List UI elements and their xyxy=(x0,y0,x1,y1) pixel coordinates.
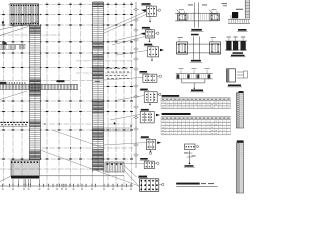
right detail B (edge beam) xyxy=(244,0,246,19)
table T2 title xyxy=(162,113,191,115)
mid reference line with node circles xyxy=(135,2,137,168)
note line xyxy=(176,183,200,185)
leader to D4 xyxy=(104,78,143,81)
right detail C (beam-column 2) xyxy=(193,36,195,59)
leader diagonals top-left xyxy=(0,22,39,30)
detail D8 xyxy=(140,158,148,160)
leader to D7 xyxy=(104,143,146,146)
leader to D5 xyxy=(118,96,144,101)
leader to D8 xyxy=(108,163,144,165)
detail D7 xyxy=(141,136,149,138)
table T1 xyxy=(161,97,231,99)
leader to D2 xyxy=(110,34,145,43)
caption A xyxy=(191,29,202,31)
detail D3 xyxy=(144,44,152,46)
detail D4 xyxy=(140,71,148,73)
right detail E (long beam elevation) xyxy=(176,73,213,75)
right detail F (column section) xyxy=(227,69,236,82)
left edge annotation clusters xyxy=(2,21,4,23)
right narrow table RT1 xyxy=(239,91,244,93)
plan column dots xyxy=(2,14,5,15)
table T1 title xyxy=(162,95,180,97)
table T2 xyxy=(161,116,231,118)
bottom dimension line xyxy=(0,185,133,187)
detail D9 (large dark) xyxy=(139,176,148,178)
bottom-middle hatched patch xyxy=(105,162,124,172)
right detail A (beam-column) xyxy=(194,2,196,27)
right narrow table RT2 xyxy=(237,140,244,142)
text annotations near band2 xyxy=(106,67,108,70)
circle under D7 xyxy=(149,152,151,154)
detail G (vertical rebar) xyxy=(185,144,196,150)
right detail D (triple block) xyxy=(225,40,247,42)
leader to D3 xyxy=(116,51,147,56)
stair band B1 (vertical, left) xyxy=(28,25,30,160)
leader diagonals bottom xyxy=(0,176,11,182)
detail D1 xyxy=(142,3,151,5)
detail D6 xyxy=(141,109,149,111)
bottom-left hatched block + dark band xyxy=(11,160,40,176)
plan column grid lines xyxy=(8,3,133,5)
top-left hatched slab block xyxy=(10,4,39,26)
detail D2 xyxy=(142,27,150,29)
horizontal beam band xyxy=(0,83,78,85)
stair band B2 (vertical, center) xyxy=(91,2,93,172)
leader to D6 xyxy=(110,115,140,121)
leader to D1 xyxy=(104,12,146,31)
detail D5 xyxy=(140,89,148,91)
